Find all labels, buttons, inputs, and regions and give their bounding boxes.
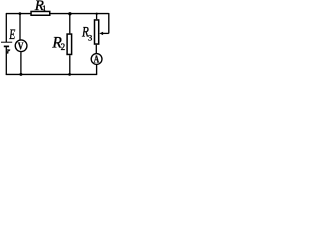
battery E,r short plate (4, 45, 9, 47)
battery E,r long plate (1, 41, 12, 43)
wire slider horizontal (103, 32, 109, 34)
rheostat R3 (95, 20, 99, 44)
node junction V bottom (19, 73, 22, 76)
svg-text:3: 3 (88, 32, 92, 42)
node junction R2 bottom (68, 73, 71, 76)
wire R3 to ammeter (95, 45, 97, 53)
svg-text:r: r (7, 46, 11, 55)
wire top (6, 13, 109, 15)
wire left upper (to battery) (5, 13, 7, 42)
node junction R2 top (68, 12, 71, 15)
resistor R1 (31, 11, 50, 15)
wire right edge (top corner down to slider) (108, 13, 110, 33)
wire R2 branch top (69, 14, 71, 34)
wire R3 branch top (96, 14, 98, 20)
svg-text:A: A (94, 54, 100, 66)
voltmeter V (15, 40, 27, 52)
svg-text:2: 2 (61, 42, 66, 52)
node junction V top (19, 12, 22, 15)
wire voltmeter branch bottom (20, 52, 22, 74)
wire ammeter to bottom (96, 65, 98, 75)
slider arrowhead on rheostat R3 (99, 32, 103, 35)
resistor R2 (67, 34, 72, 54)
svg-text:V: V (18, 41, 24, 54)
node junction R3 top (96, 13, 98, 15)
ammeter A (91, 54, 102, 65)
wire voltmeter branch top (19, 14, 21, 41)
wire bottom (6, 73, 97, 75)
svg-text:1: 1 (42, 3, 46, 13)
wire left lower (battery to bottom) (5, 46, 7, 75)
svg-text:E: E (8, 26, 15, 43)
wire R2 branch bottom (69, 55, 71, 74)
